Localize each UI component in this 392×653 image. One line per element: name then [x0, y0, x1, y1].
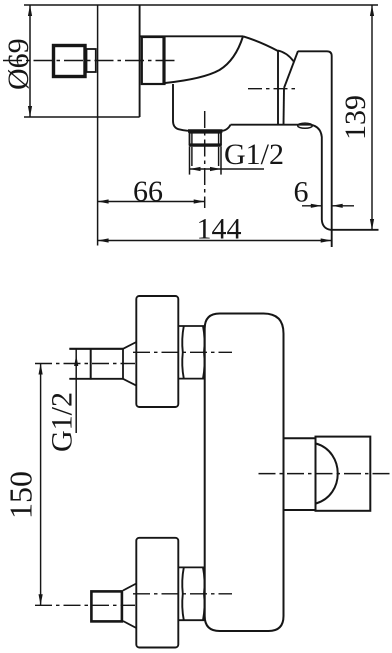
top nut top edge: [178, 325, 204, 327]
body bottom edge: [231, 124, 311, 126]
bottom nut bottom edge: [178, 619, 204, 621]
knob dome arc: [316, 444, 338, 504]
G1/2 leader: [75, 349, 77, 434]
arrow dia69 bottom: [28, 106, 32, 117]
top inlet pipe: [69, 348, 123, 350]
washer thick band: [188, 129, 223, 132]
dim 66 line: [98, 201, 205, 203]
top nut bottom edge: [178, 378, 204, 380]
bottom cone: [123, 584, 136, 591]
body rounded rect: [205, 314, 284, 632]
svg-text:G1/2: G1/2: [224, 138, 284, 171]
thread outer lines: [189, 147, 191, 175]
svg-text:139: 139: [339, 95, 372, 140]
outlet edge d2: [283, 88, 286, 125]
body top edge: [140, 35, 243, 37]
dim 139 line: [371, 5, 373, 230]
top mount centerline: [133, 351, 232, 353]
hex adapter: [142, 37, 165, 84]
hose hook ellipse: [298, 123, 313, 128]
extension line bottom of dia69: [24, 116, 140, 118]
dim line dia69: [29, 5, 31, 117]
arrow dia69 top: [28, 5, 32, 16]
bottom nut right arc: [203, 567, 205, 620]
nut dark band: [189, 144, 222, 147]
bottom nut left arc: [182, 567, 184, 620]
svg-text:Ø69: Ø69: [2, 38, 35, 90]
bottom inlet pipe: [91, 591, 122, 621]
bottom nut top edge: [178, 566, 204, 568]
top nut right arc: [203, 326, 205, 379]
body top-right curve: [243, 36, 278, 51]
G1/2 dim line with outward arrows: [190, 168, 265, 170]
nut chamfer lines: [191, 133, 193, 145]
bottom pipe centerline: [35, 604, 135, 606]
escutcheon front face line (also ext line for 66/144): [97, 5, 99, 246]
svg-text:6: 6: [294, 176, 309, 209]
body right edge: [277, 51, 279, 125]
dim 144 line: [98, 240, 332, 242]
body lower-left edge with fillet and shoulder: [173, 84, 188, 131]
outlet diagonal d1: [284, 51, 298, 88]
bracket top and right edge: [298, 51, 332, 247]
right shoulder: [223, 125, 231, 131]
outlet arc a1: [278, 51, 294, 62]
dim 6 lines: [302, 205, 322, 207]
top cone: [123, 342, 136, 349]
connector centerline vertical: [204, 111, 206, 208]
bracket fillet to lip: [311, 125, 379, 230]
svg-text:150: 150: [3, 471, 39, 519]
handle knob: [316, 437, 371, 511]
bottom escutcheon: [136, 538, 178, 648]
top nut left arc: [182, 326, 184, 379]
handle neck: [87, 49, 96, 72]
top escutcheon: [136, 296, 178, 407]
centerline horizontal: [3, 60, 178, 62]
dim 150 line: [40, 364, 42, 606]
extension line top: [24, 4, 378, 6]
spout curve: [165, 36, 243, 83]
connector nut: [190, 133, 222, 145]
handle stem: [284, 437, 316, 439]
handle centerline: [259, 473, 391, 475]
top pipe centerline: [35, 363, 135, 365]
svg-text:G1/2: G1/2: [46, 392, 79, 452]
handle knob: [54, 46, 86, 77]
svg-text:66: 66: [133, 175, 163, 208]
svg-text:144: 144: [197, 213, 242, 246]
thread inner lines: [191, 147, 193, 166]
escutcheon rear face: [139, 5, 141, 117]
hex adapter right thick edge: [162, 37, 164, 84]
centerline outlet: [248, 88, 296, 90]
bottom mount centerline: [133, 593, 232, 595]
